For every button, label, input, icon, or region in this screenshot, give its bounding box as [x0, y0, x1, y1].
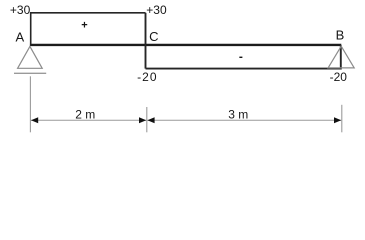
svg-text:-: -: [239, 50, 243, 64]
svg-text:+30: +30: [10, 3, 31, 17]
arrowhead right at C: [139, 117, 146, 123]
positive shear region outline: [31, 13, 146, 45]
arrowhead left at C: [147, 117, 154, 123]
svg-text:+: +: [81, 20, 87, 32]
svg-text:-20: -20: [137, 70, 158, 84]
extension line at A: [29, 76, 31, 132]
svg-text:2 m: 2 m: [75, 108, 95, 122]
svg-text:3 m: 3 m: [228, 108, 248, 122]
beam baseline A-B: [30, 44, 341, 46]
extension line at C: [146, 107, 148, 132]
negative shear region outline: [146, 45, 341, 69]
arrowhead left at A: [31, 117, 38, 123]
svg-text:B: B: [336, 28, 345, 43]
dimension line A-C: [31, 119, 146, 121]
dimension line C-B: [147, 119, 341, 121]
ground line under support A: [14, 72, 46, 74]
arrowhead right at B: [334, 117, 341, 123]
support triangle A: [18, 46, 43, 68]
step line at C: [145, 13, 147, 69]
svg-text:+30: +30: [146, 3, 167, 17]
extension line at B: [341, 105, 343, 133]
svg-text:-20: -20: [330, 70, 348, 84]
svg-text:A: A: [16, 30, 25, 45]
support triangle B: [328, 46, 354, 68]
svg-text:C: C: [149, 29, 158, 44]
